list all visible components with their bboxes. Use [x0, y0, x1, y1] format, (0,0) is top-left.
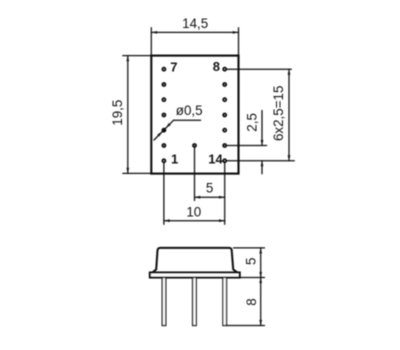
dimension 5 line (bottom)	[195, 196, 225, 198]
svg-text:5: 5	[206, 180, 213, 195]
extension line from pin 14 down	[224, 163, 226, 224]
dimension 6x2,5=15 arrow down	[288, 155, 291, 161]
pin hole row2 right	[223, 83, 226, 86]
dimension 6x2,5=15 arrow up	[288, 69, 291, 75]
side extension line pin bottom	[227, 325, 265, 327]
leader line from pin 14	[227, 160, 294, 162]
leader arrow lower (points at hole)	[157, 132, 162, 137]
pin hole row5 right	[223, 129, 226, 132]
svg-text:19,5: 19,5	[110, 100, 125, 126]
side view pin right	[223, 278, 227, 326]
side view body outline	[152, 248, 237, 273]
dimension 14,5 line	[151, 31, 238, 33]
dimension 5 arrow left	[195, 196, 201, 199]
dimension 14,5 arrow right	[233, 31, 239, 34]
dimension 2,5 upper line	[261, 111, 263, 146]
dimension 2,5 arrow up	[261, 161, 264, 167]
dimension 19,5 arrow down	[126, 168, 129, 174]
dimension 19,5 extension line bottom	[123, 172, 152, 174]
center hole	[193, 144, 196, 147]
dimension 19,5 arrow up	[126, 56, 129, 62]
dimension 6x2,5=15 line	[288, 69, 290, 161]
svg-text:5: 5	[244, 258, 259, 265]
svg-text:ø0,5: ø0,5	[176, 103, 203, 118]
svg-text:10: 10	[186, 205, 201, 220]
package top view outline	[151, 56, 238, 174]
svg-text:1: 1	[171, 151, 178, 166]
pin 14 hole	[223, 159, 226, 162]
side extension line body top	[234, 247, 265, 249]
side dimension 5 arrow up	[259, 248, 262, 254]
dimension 10 arrow right	[219, 219, 225, 222]
dimension 19,5 line	[127, 56, 129, 174]
pin 1 hole	[163, 159, 166, 162]
pin hole row5 left (0.5mm hole)	[163, 129, 166, 132]
side dimension 5 arrow down	[259, 272, 262, 278]
pin hole row3 right	[223, 98, 226, 101]
dimension 14,5 arrow left	[151, 31, 157, 34]
leader shelf line	[174, 119, 201, 121]
pin 8 hole	[223, 68, 226, 71]
dimension 19,5 extension line top	[123, 55, 152, 57]
leader line from pin 8	[227, 68, 291, 70]
svg-text:14: 14	[208, 151, 223, 166]
dimension 2,5 lower line	[261, 161, 263, 174]
svg-text:14,5: 14,5	[182, 16, 208, 31]
svg-text:8: 8	[213, 59, 220, 74]
svg-text:8: 8	[244, 298, 259, 305]
side view pin middle	[193, 278, 197, 326]
side view base plate	[150, 273, 240, 278]
side dimension 8 arrow down	[259, 320, 262, 326]
leader line from row6 right hole	[227, 145, 266, 147]
leader arrow upper (points at hole)	[166, 123, 171, 128]
dimension 14,5 extension line left	[150, 28, 152, 56]
pin hole row6 right	[223, 144, 226, 147]
dimension 14,5 extension line right	[238, 28, 240, 56]
pin hole row4 right	[223, 114, 226, 117]
side extension line plate bottom	[240, 277, 264, 279]
dimension 10 arrow left	[164, 219, 170, 222]
dimension 10 line	[164, 220, 225, 222]
pin hole row3 left	[163, 98, 166, 101]
dimension 5 arrow right	[219, 196, 225, 199]
svg-text:2,5: 2,5	[245, 113, 260, 132]
svg-text:6x2,5=15: 6x2,5=15	[271, 86, 286, 141]
extension line from center hole down	[194, 148, 196, 200]
extension line from pin 1 down	[163, 163, 165, 224]
svg-text:7: 7	[170, 59, 177, 74]
pin hole row2 left	[163, 83, 166, 86]
pin 7 hole	[163, 68, 166, 71]
pin hole row4 left	[163, 114, 166, 117]
side dimension line vertical	[260, 248, 262, 326]
side dimension 8 arrow up	[259, 278, 262, 284]
side view pin left	[162, 278, 166, 326]
leader diagonal line	[154, 120, 174, 140]
dimension 2,5 arrow down	[261, 140, 264, 146]
pin hole row6 left	[163, 144, 166, 147]
